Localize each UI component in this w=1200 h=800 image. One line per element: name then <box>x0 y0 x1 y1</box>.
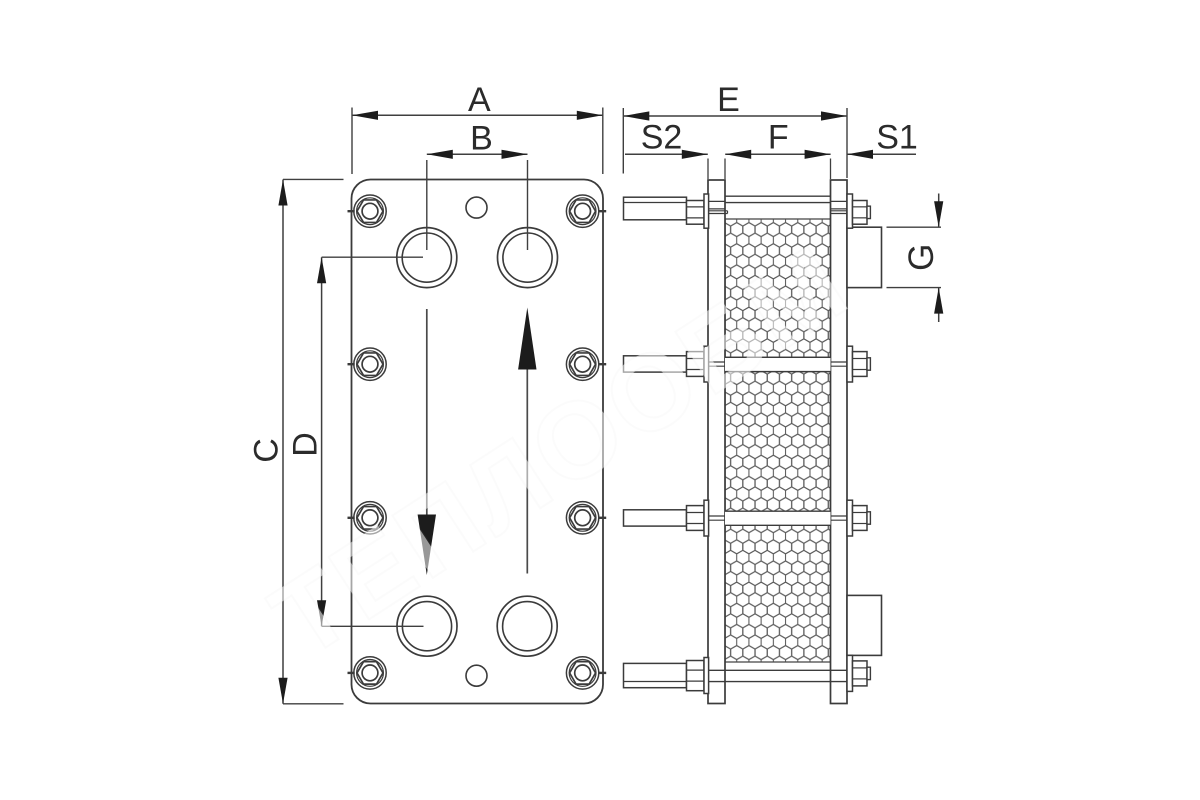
svg-text:E: E <box>717 81 740 119</box>
svg-text:D: D <box>287 432 325 457</box>
svg-text:C: C <box>248 438 286 463</box>
svg-text:G: G <box>902 244 941 271</box>
svg-text:S1: S1 <box>876 119 918 157</box>
svg-text:S2: S2 <box>641 119 683 157</box>
svg-text:F: F <box>768 119 789 157</box>
svg-text:B: B <box>470 120 493 158</box>
svg-text:A: A <box>468 81 491 119</box>
